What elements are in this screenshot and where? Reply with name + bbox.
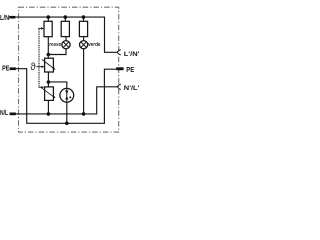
wire: node to gas tube top <box>48 82 66 88</box>
terminal N/L input <box>10 113 16 116</box>
varistor RV2 <box>42 87 55 101</box>
node: RV1 top <box>47 53 51 57</box>
enclosure dash-dot border <box>19 7 119 132</box>
node: gas tube PE rail <box>65 122 69 126</box>
wire: gas tube bottom to PE rail <box>66 103 68 124</box>
linkage arrow to F1 <box>38 27 44 30</box>
wire: PE path <box>16 69 117 124</box>
node: RV1 bottom <box>47 80 51 84</box>
wire: node to rosso lamp <box>48 49 66 55</box>
wire: column 1 stem <box>47 17 49 21</box>
lamp rosso <box>62 41 70 49</box>
terminal L/N input <box>9 16 15 19</box>
node: top rail col3 <box>82 15 86 19</box>
terminal PE output <box>116 67 123 70</box>
svg-text:L/N: L/N <box>0 13 9 22</box>
wire: rect2 to rosso lamp <box>65 37 67 41</box>
svg-text:ϑ: ϑ <box>30 62 36 73</box>
svg-text:N'/L': N'/L' <box>124 85 140 92</box>
node: RV2 bottom N rail <box>47 112 51 116</box>
svg-text:PE: PE <box>126 65 134 74</box>
node: verde lamp N rail <box>82 112 86 116</box>
gas discharge tube F2 <box>60 88 74 102</box>
resistor R2 (rect3) <box>79 21 87 36</box>
terminal PE input <box>10 67 16 70</box>
resistor R1 (rect2) <box>61 21 69 36</box>
wire: rect3 to verde lamp <box>83 37 85 41</box>
contact L'/N' output <box>117 50 121 55</box>
wire: RV2 to N rail <box>47 100 49 114</box>
svg-text:L'/N': L'/N' <box>124 51 140 58</box>
wire: verde lamp to N rail <box>83 49 85 114</box>
wire: top rail L/N <box>15 17 117 52</box>
node: top rail col1 <box>47 15 51 19</box>
disconnector F1 (rect1) <box>44 21 52 36</box>
node: top rail col2 <box>64 15 68 19</box>
linkage arrow to RV2 <box>39 86 45 89</box>
varistor RV1 <box>42 58 55 72</box>
contact N'/L' output <box>117 84 121 89</box>
svg-text:N/L: N/L <box>0 110 8 117</box>
wire: rect2 stem <box>64 17 66 21</box>
lamp verde <box>80 41 88 49</box>
wire: rect3 stem <box>83 17 85 21</box>
svg-text:rosso: rosso <box>49 42 62 48</box>
svg-text:PE: PE <box>2 63 9 72</box>
svg-text:verde: verde <box>88 42 100 48</box>
wire: rect1 to varistor RV1 <box>47 37 49 59</box>
wire: N rail <box>16 87 117 114</box>
thermal arrow to RV1 <box>36 65 44 68</box>
wire: RV1 to RV2 node <box>47 72 49 87</box>
mechanical linkage dotted line <box>38 29 40 87</box>
